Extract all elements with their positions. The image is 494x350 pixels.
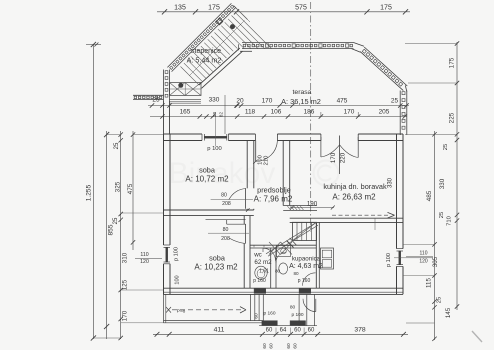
door kupaonica	[303, 273, 316, 286]
door soba lower	[230, 238, 245, 243]
svg-text:120: 120	[140, 259, 149, 265]
terrace balustrade corner diagonal	[360, 52, 403, 91]
svg-text:p 100: p 100	[291, 312, 303, 318]
svg-text:60: 60	[254, 313, 260, 319]
svg-text:190: 190	[307, 201, 318, 208]
svg-text:106: 106	[271, 109, 282, 116]
svg-text:soba: soba	[209, 254, 226, 263]
staircase stepenice	[163, 70, 165, 101]
witness 205	[357, 112, 359, 117]
right dim line 175/225/25/330/25/710	[456, 42, 458, 310]
svg-text:A: 10,23 m2: A: 10,23 m2	[194, 263, 238, 272]
svg-text:118: 118	[245, 109, 256, 116]
svg-text:p 160: p 160	[298, 278, 311, 284]
svg-text:60: 60	[308, 327, 315, 333]
svg-text:A: 36,15 m2: A: 36,15 m2	[281, 97, 321, 106]
wall stairs to house left	[163, 100, 165, 134]
watermark	[169, 157, 339, 190]
svg-text:475: 475	[127, 183, 134, 194]
svg-text:predsoblje: predsoblje	[257, 186, 291, 195]
entry strip walls	[163, 294, 165, 322]
stairwell down	[293, 222, 317, 240]
svg-text:710: 710	[447, 216, 453, 226]
svg-text:170: 170	[262, 98, 273, 105]
svg-text:210: 210	[264, 156, 270, 166]
door kitchen double	[320, 137, 322, 157]
svg-text:25: 25	[436, 297, 442, 303]
wall bathroom top	[250, 244, 316, 246]
svg-text:325: 325	[115, 181, 122, 192]
terrace balustrade top band	[242, 42, 354, 44]
svg-text:165: 165	[180, 109, 191, 116]
svg-text:330: 330	[388, 177, 394, 188]
svg-text:855: 855	[108, 224, 115, 235]
svg-text:64: 64	[280, 327, 287, 333]
terrace balustrade connector	[354, 43, 365, 47]
kupaonica washbasin	[279, 263, 288, 274]
svg-text:1.255: 1.255	[86, 184, 93, 201]
svg-text:186: 186	[304, 109, 315, 116]
vertical centerline axis	[310, 2, 312, 232]
terrace left edge line	[224, 95, 226, 134]
svg-text:25: 25	[113, 217, 119, 224]
svg-text:A: 26,63 m2: A: 26,63 m2	[332, 193, 376, 202]
svg-text:60: 60	[262, 343, 268, 349]
wall hatched above stairwell	[283, 205, 317, 207]
porch walls and sills	[298, 294, 300, 325]
svg-text:125: 125	[122, 279, 129, 290]
svg-text:25: 25	[114, 142, 120, 149]
svg-text:170: 170	[330, 152, 337, 163]
right dim line 485/305/115/25/145	[434, 131, 436, 340]
wall bathroom-living	[315, 222, 317, 288]
kitchen counter	[321, 248, 334, 269]
wall between rooms mid	[164, 209, 254, 211]
wall chamfer predsoblje corner	[287, 241, 294, 248]
svg-text:1,61: 1,61	[259, 269, 269, 275]
window kitchen p100	[397, 248, 404, 250]
beam kitchen-living	[290, 217, 403, 219]
right witness beam	[403, 243, 435, 245]
svg-text:20: 20	[236, 98, 244, 105]
svg-text:p 160: p 160	[263, 311, 275, 317]
left dim line 855	[106, 131, 108, 339]
door soba upper	[245, 188, 247, 208]
terrace dim line 20/170/475/25	[232, 105, 409, 107]
wall lower-soba right with notch	[243, 216, 245, 225]
door wc	[263, 248, 276, 261]
right witness 115	[403, 275, 435, 277]
svg-text:60: 60	[286, 343, 292, 349]
svg-text:A: 10,72 m2: A: 10,72 m2	[185, 175, 229, 184]
svg-text:60: 60	[294, 327, 301, 333]
left witness bottomwall	[121, 289, 164, 291]
left witness strip	[121, 322, 164, 324]
left dim line 475	[132, 131, 134, 250]
svg-text:330: 330	[209, 97, 220, 104]
dim 190 stairwell	[290, 207, 334, 209]
left dim line 25/325/25/310/125/170	[120, 131, 122, 339]
svg-text:170: 170	[344, 109, 355, 116]
svg-text:208: 208	[221, 236, 230, 242]
svg-text:110: 110	[140, 252, 148, 258]
svg-text:100: 100	[175, 275, 181, 284]
svg-text:205: 205	[379, 109, 390, 116]
wc toilet	[255, 266, 267, 279]
window soba p100	[201, 134, 203, 141]
left dim line 1.255	[92, 44, 94, 339]
svg-text:115: 115	[426, 278, 433, 288]
svg-text:80: 80	[223, 227, 229, 233]
door kupaonica inner arc	[276, 252, 287, 263]
top dimension line 135/175/575/175	[157, 11, 410, 13]
svg-text:80: 80	[221, 192, 227, 198]
svg-text:60: 60	[266, 327, 273, 333]
wall right exterior	[396, 134, 398, 249]
svg-text:28: 28	[212, 112, 217, 118]
svg-text:60: 60	[269, 343, 275, 349]
door swing crosses hall	[269, 242, 281, 255]
svg-text:soba: soba	[199, 166, 216, 175]
direction arrow living	[332, 214, 389, 216]
svg-text:120: 120	[419, 259, 428, 265]
svg-text:575: 575	[295, 4, 307, 11]
svg-text:175: 175	[208, 4, 220, 11]
svg-text:A: 5,44 m2: A: 5,44 m2	[187, 56, 222, 65]
wall predsoblje-kuhinja	[282, 141, 284, 206]
svg-text:170: 170	[122, 310, 129, 321]
svg-text:80: 80	[275, 269, 281, 274]
entry dashed path arrow	[172, 309, 241, 311]
svg-text:310: 310	[122, 252, 129, 263]
wall left exterior	[163, 134, 165, 245]
window lower-soba p100	[164, 244, 171, 246]
svg-text:175: 175	[380, 4, 392, 11]
svg-text:135: 135	[174, 4, 186, 11]
svg-text:stepenice: stepenice	[191, 48, 221, 55]
svg-text:225: 225	[449, 112, 456, 123]
svg-text:485: 485	[426, 190, 433, 201]
svg-text:kuhinja dn. boravak: kuhinja dn. boravak	[323, 182, 387, 191]
bottom dim line 411/60/64/60/60/378	[153, 333, 408, 335]
kupaonica shower	[277, 246, 291, 257]
scan specks	[472, 331, 482, 342]
svg-text:kupaonica: kupaonica	[292, 256, 321, 263]
svg-text:110: 110	[420, 251, 428, 257]
wall soba-predsoblje	[246, 141, 248, 189]
svg-text:wc: wc	[253, 252, 262, 259]
porch door arc	[303, 299, 316, 312]
left witness midwall	[121, 212, 164, 214]
svg-text:25: 25	[439, 212, 445, 218]
svg-text:25: 25	[443, 144, 449, 150]
terrace balustrade corner2	[405, 85, 407, 91]
wall bottom exterior with windows p160	[164, 287, 404, 289]
door predsoblje entry	[255, 141, 257, 162]
svg-text:208: 208	[222, 201, 231, 207]
svg-text:terasa: terasa	[293, 89, 312, 96]
svg-text:378: 378	[354, 326, 366, 333]
left col bottom ext	[93, 337, 121, 339]
svg-text:82: 82	[219, 112, 224, 118]
svg-text:60: 60	[293, 343, 299, 349]
svg-text:305: 305	[432, 256, 439, 267]
svg-text:330: 330	[439, 178, 446, 189]
wall wc-kupaonica	[270, 248, 272, 288]
stairs dim line 25/330	[148, 105, 232, 107]
wall top exterior	[164, 133, 203, 135]
wall dim line 165/118/106/186/170/205	[150, 116, 407, 118]
terrace balustrade right band	[399, 91, 401, 136]
svg-text:62 m2: 62 m2	[254, 259, 272, 266]
svg-text:175: 175	[449, 57, 456, 68]
svg-text:p 100: p 100	[174, 247, 180, 261]
svg-text:475: 475	[337, 98, 348, 105]
svg-text:411: 411	[214, 326, 225, 333]
svg-text:A: 4,63 m2: A: 4,63 m2	[289, 263, 323, 270]
svg-text:P≈8: P≈8	[177, 309, 186, 315]
svg-text:A: 7,96 m2: A: 7,96 m2	[254, 195, 293, 204]
svg-text:80: 80	[290, 305, 296, 311]
svg-text:p 100: p 100	[207, 146, 222, 152]
svg-text:25: 25	[391, 98, 399, 105]
svg-text:220: 220	[340, 152, 347, 163]
svg-text:145: 145	[445, 307, 452, 318]
svg-text:80: 80	[293, 271, 299, 276]
svg-text:p 160: p 160	[253, 278, 266, 284]
svg-text:p 100: p 100	[386, 253, 392, 267]
